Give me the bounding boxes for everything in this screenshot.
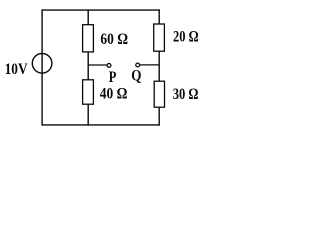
voltage source V1 10V circle bbox=[32, 54, 52, 74]
wire: left vertical (through source) bbox=[41, 9, 43, 125]
wire: bottom horizontal bbox=[42, 124, 160, 126]
wire: stub to terminal Q bbox=[140, 64, 159, 66]
terminal Q open circle bbox=[136, 63, 140, 67]
svg-text:20 Ω: 20 Ω bbox=[173, 29, 199, 46]
resistor R2 40 ohm body bbox=[83, 80, 94, 104]
svg-text:40 Ω: 40 Ω bbox=[100, 86, 128, 103]
wire: middle vertical branch bbox=[87, 9, 89, 125]
resistor R3 20 ohm body bbox=[154, 24, 165, 51]
resistor R4 30 ohm body bbox=[154, 81, 164, 107]
svg-text:Q: Q bbox=[131, 68, 141, 85]
svg-text:P: P bbox=[109, 69, 117, 86]
resistor R1 60 ohm body bbox=[83, 25, 94, 52]
wire: top horizontal bbox=[42, 9, 160, 11]
svg-text:60 Ω: 60 Ω bbox=[100, 31, 128, 48]
wire: stub to terminal P bbox=[88, 64, 106, 66]
wire: right vertical branch bbox=[158, 9, 160, 125]
svg-text:10V: 10V bbox=[5, 61, 28, 78]
terminal P open circle bbox=[107, 64, 111, 68]
svg-text:30 Ω: 30 Ω bbox=[173, 86, 199, 103]
